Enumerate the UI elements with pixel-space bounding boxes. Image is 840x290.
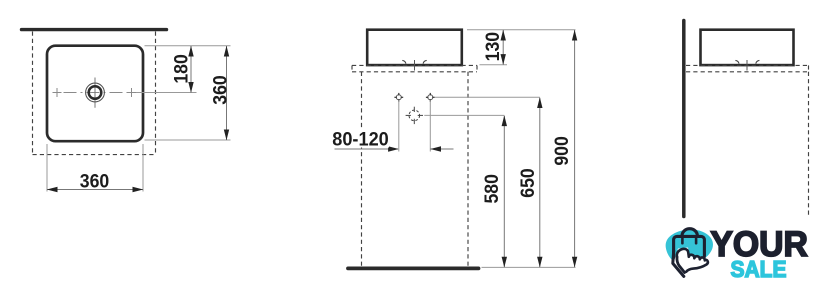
basin side	[701, 30, 794, 65]
svg-text:SALE: SALE	[731, 256, 787, 282]
bag handle hook left	[681, 239, 684, 244]
hand fill	[674, 248, 709, 276]
countertop dashed outline	[33, 32, 156, 155]
faucet hole outer	[86, 83, 105, 102]
label 80-120 mask	[333, 128, 389, 148]
shopping bag handle	[682, 229, 697, 238]
svg-text:180: 180	[171, 54, 193, 84]
svg-text:900: 900	[551, 136, 573, 166]
dimension 80-120	[335, 146, 454, 151]
pedestal dashed left	[361, 72, 363, 267]
extension line faucet	[424, 114, 504, 116]
hand thumb edge	[677, 257, 685, 273]
dimension 650	[537, 97, 542, 267]
dashed vertical right	[808, 72, 810, 217]
drain hook right	[423, 60, 427, 63]
svg-text:360: 360	[80, 170, 110, 192]
countertop dashed band	[352, 65, 477, 71]
mounting hole left	[394, 93, 403, 102]
pedestal dashed right	[467, 72, 469, 267]
dimension 360 bottom line	[47, 187, 143, 192]
drain centerline	[746, 60, 748, 71]
extension line basin top right	[467, 29, 576, 31]
drain centerline	[414, 60, 416, 71]
extension line basin bottom	[145, 139, 231, 141]
bottom extension lines	[46, 144, 48, 192]
countertop dashed band	[686, 65, 809, 71]
drain hook left	[735, 60, 739, 63]
floor line	[348, 266, 479, 270]
plus mark left	[53, 88, 62, 97]
hand palm edge	[673, 251, 684, 277]
basin front	[367, 30, 462, 65]
shopping bag body	[674, 236, 705, 259]
hole stem right	[429, 100, 431, 151]
centerline horizontal	[64, 92, 128, 94]
svg-text:580: 580	[481, 174, 503, 204]
hole stem left	[398, 100, 400, 151]
svg-text:360: 360	[209, 75, 231, 105]
dimension 130	[501, 30, 506, 65]
faucet crosshair vertical	[94, 78, 96, 108]
faucet hole inner	[89, 86, 102, 99]
extension line basin bottom right	[480, 64, 508, 66]
extension line faucet center	[136, 92, 197, 94]
wall line	[22, 28, 167, 31]
basin (rounded square)	[47, 46, 143, 142]
dimension 580	[502, 115, 507, 267]
plus mark right	[127, 88, 136, 97]
dimension 900	[572, 30, 577, 268]
dimension 360 vertical line	[224, 46, 229, 140]
dimension 180 line	[188, 46, 193, 93]
faucet position crosshair	[406, 107, 423, 124]
floor thin extension	[482, 266, 576, 268]
cyan blob	[666, 229, 713, 265]
mounting hole right	[426, 93, 435, 102]
extension line basin top	[145, 45, 231, 47]
bag handle hook right	[695, 239, 698, 244]
hand finger and knuckles outline	[677, 249, 708, 272]
drain hook right	[756, 60, 760, 63]
drain hook left	[402, 60, 406, 63]
svg-text:80-120: 80-120	[332, 129, 389, 151]
extension line hole right	[435, 96, 540, 98]
wall line vertical	[682, 21, 686, 217]
svg-text:650: 650	[517, 168, 539, 198]
svg-text:130: 130	[482, 32, 504, 62]
